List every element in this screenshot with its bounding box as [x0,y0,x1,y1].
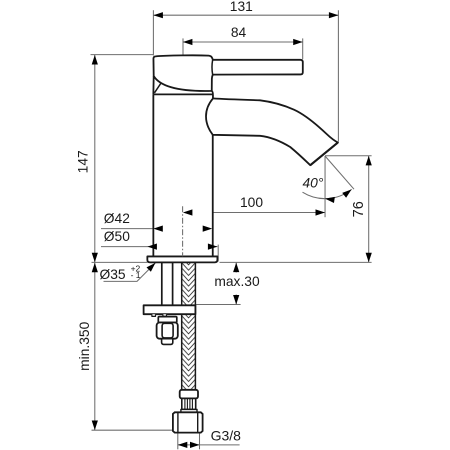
40 degree angle leg line [325,156,354,189]
arrows min.350 [92,263,98,273]
extension line right of 84 [302,38,304,59]
svg-text:- 1: - 1 [131,270,141,280]
svg-text:min.350: min.350 [77,321,92,370]
spout [206,98,338,165]
dimension min.350 line [94,262,96,430]
arrows 76 [366,156,372,166]
deck surface line left [92,261,148,263]
leader line of diameter 50 [101,246,217,248]
mounting bracket washer [144,305,196,314]
G3/8 extension line left [177,433,179,450]
svg-text:G3/8: G3/8 [211,427,242,443]
arrows 100 [183,209,193,215]
rod end below nut [162,339,173,345]
body right edge lower [212,135,214,257]
bracket tooth right [163,314,167,316]
hose crimp collar [180,390,198,399]
hex nut facets [162,323,173,338]
extension line from spout outlet down (angle vertex vertical) [324,156,326,217]
spout outlet edge [310,143,338,166]
40 degree arc [303,189,352,198]
body top joint line [153,93,213,95]
arrow leader diameter 35 [146,261,157,272]
svg-text:Ø35: Ø35 [100,267,126,282]
centerline of body [182,206,184,256]
G3/8 dimension line [178,444,240,446]
head wedge line [154,83,161,93]
faucet body cylinder [153,94,213,256]
head right edge at lever joint [211,60,214,74]
svg-text:84: 84 [231,25,247,40]
dimension 76 line [368,156,370,263]
svg-text:131: 131 [230,0,253,14]
extension line left of 84 [182,38,184,55]
threaded mounting rod [162,262,173,306]
extension line bottom of max.30 (bracket top) [196,304,241,306]
braided flex hose [182,262,196,390]
arrows 147 [92,55,98,65]
dimension 131 line [153,14,338,16]
svg-text:Ø50: Ø50 [104,229,130,244]
extension line top of 76 [325,155,372,157]
arrows diameter 42 [153,226,163,232]
svg-text:Ø42: Ø42 [104,211,130,226]
arrows 84 [183,39,193,45]
extension line top of 147 [91,54,154,56]
arrows G3/8 [178,442,188,448]
head left lower edge [152,76,154,94]
body left edge [152,94,154,256]
G3/8 extension line right [199,433,201,450]
max.30 dimension stubs [235,263,237,273]
leader line of diameter 42 [101,228,212,230]
leader line of diameter 35 [104,263,156,282]
svg-text:147: 147 [75,150,90,173]
svg-text:40°: 40° [303,176,324,191]
svg-text:max.30: max.30 [214,274,260,289]
dimension 100 line [183,212,325,214]
escutcheon plate [147,256,217,262]
arrows diameter 50 [147,244,157,250]
dimension 147 line [94,55,96,263]
hex nut on rod [157,323,178,339]
bracket tooth left [152,314,156,316]
svg-text:100: 100 [240,195,263,210]
arrows 40 degree arc [325,196,335,203]
G3/8 nut facets [178,413,198,433]
extension line left of 131 [152,10,154,55]
washer block under bracket [158,317,177,323]
arrows max.30 [233,263,239,273]
deck surface line right [220,261,372,263]
extension line bottom of min.350 (at hose nut) [92,429,173,431]
hose nipple with stripes [182,398,196,409]
body right edge upper [212,94,214,98]
head bottom step right [212,91,213,94]
extension line right of 131 (to spout outlet corner) [337,10,339,141]
svg-text:76: 76 [351,201,367,217]
dimension 84 line [183,41,303,43]
arrows 131 [153,12,163,18]
G3/8 hex nut [173,412,203,432]
nipple flange [181,409,197,412]
extension line right of diameter 50 [217,245,219,262]
handle head and lever [153,55,302,91]
